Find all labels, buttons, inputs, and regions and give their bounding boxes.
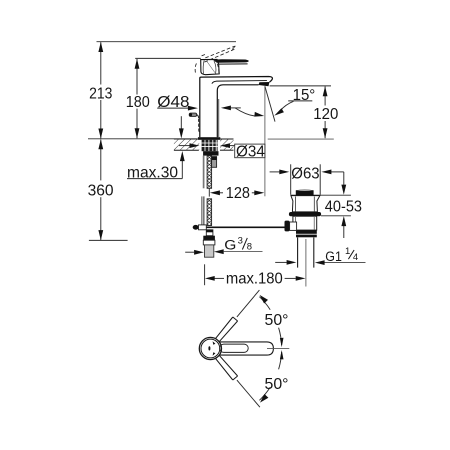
svg-text:3: 3 (238, 236, 243, 247)
svg-text:G: G (224, 237, 236, 252)
svg-text:4: 4 (353, 252, 358, 263)
svg-text:max.30: max.30 (127, 164, 178, 181)
svg-text:Ø63: Ø63 (291, 165, 320, 182)
svg-text:50°: 50° (265, 376, 289, 393)
svg-text:1: 1 (345, 246, 350, 257)
svg-text:180: 180 (126, 94, 150, 111)
svg-text:120: 120 (313, 106, 338, 123)
svg-text:8: 8 (247, 242, 252, 253)
svg-text:50°: 50° (265, 312, 289, 329)
svg-text:15°: 15° (293, 87, 316, 104)
svg-text:128: 128 (226, 185, 250, 202)
svg-text:Ø34: Ø34 (236, 143, 265, 160)
svg-text:max.180: max.180 (226, 270, 283, 287)
svg-text:360: 360 (88, 183, 114, 200)
svg-text:G1: G1 (325, 249, 342, 264)
svg-text:Ø48: Ø48 (157, 94, 189, 111)
svg-text:213: 213 (89, 86, 112, 103)
svg-text:40-53: 40-53 (325, 198, 362, 215)
